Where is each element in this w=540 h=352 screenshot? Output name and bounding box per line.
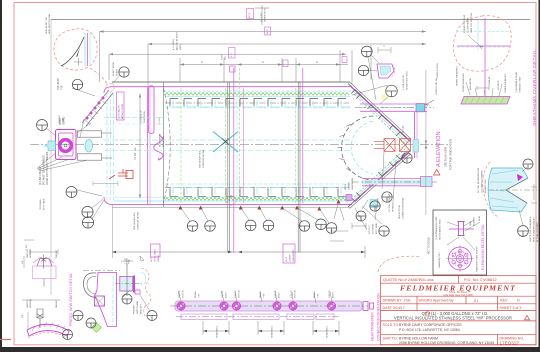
svg-text:ENGRG Approved By: ENGRG Approved By: [419, 299, 454, 303]
boxed dim label 1: [247, 9, 254, 19]
leg joint red dashed circle: [226, 196, 236, 206]
cloud leader dashes: [90, 68, 107, 84]
cloud2 leader arrow: [468, 35, 483, 49]
liquid level cyan dashed verticals: [106, 92, 108, 200]
switch dome lower magenta: [27, 324, 69, 336]
dim verticals: [112, 205, 114, 258]
svg-text:(REF.): (REF.): [180, 44, 182, 50]
scraper magenta wedge: [517, 174, 523, 181]
bezel flange outer circle: [449, 247, 472, 270]
balloon r0: [361, 46, 372, 57]
svg-text:LIQUID: LIQUID: [275, 290, 277, 298]
pedestal top dim: [121, 256, 144, 265]
right head arc clip ticks: [338, 124, 352, 171]
balloon b7: [326, 223, 337, 234]
hook centerline: [83, 269, 120, 271]
svg-text:OVERLAP DETAIL: OVERLAP DETAIL: [137, 211, 140, 230]
svg-text:SHEET 3 of 3: SHEET 3 of 3: [500, 306, 522, 310]
pipe crossing box: [370, 200, 378, 208]
cone top green dashed: [354, 94, 407, 146]
svg-text:NO WELD: NO WELD: [498, 80, 500, 90]
svg-text:HEX RETAINING RING: HEX RETAINING RING: [439, 219, 442, 240]
strip screws magenta: [86, 97, 105, 120]
scraper centerline: [488, 189, 537, 191]
svg-text:HOLDER: HOLDER: [30, 249, 32, 258]
dome dims: [28, 300, 60, 330]
svg-text:NOT TO SCALE: NOT TO SCALE: [428, 237, 431, 254]
svg-text:OUTLET: OUTLET: [183, 289, 185, 298]
bezel flange bolts: [452, 250, 468, 268]
balloon r1: [358, 65, 368, 75]
svg-text:TO DRAIN: TO DRAIN: [39, 199, 42, 210]
svg-text:16" B: 16" B: [286, 256, 288, 262]
pedestal salmon profile: [141, 268, 151, 316]
svg-text:CONNECTION DETAIL: CONNECTION DETAIL: [402, 196, 405, 219]
bezel stud line magenta: [449, 228, 474, 230]
svg-text:GRAY: GRAY: [469, 220, 472, 226]
end fitting: [363, 302, 374, 311]
balloon b4: [263, 220, 274, 231]
green bar hatch: [465, 97, 504, 103]
balloon g3: [119, 67, 129, 77]
tank top clips cyan echo: [173, 100, 350, 107]
green overlap bar: [461, 97, 510, 105]
svg-text:(2) LA STAINLESS STEEL: (2) LA STAINLESS STEEL: [435, 215, 438, 240]
cone clips top: [351, 90, 405, 138]
svg-text:16'-3": 16'-3": [249, 12, 251, 18]
green diamond: [92, 323, 102, 333]
pedestal stem vertical: [126, 264, 128, 296]
dims left of switch: [22, 240, 34, 300]
switch holder upper trapezoid: [37, 259, 52, 267]
svg-text:1/2" DIA. CONCAVE: 1/2" DIA. CONCAVE: [388, 192, 391, 212]
cloud sheathing curve: [61, 37, 84, 66]
cloud magenta vertical: [87, 33, 89, 66]
svg-text:SHEATHING: SHEATHING: [143, 111, 146, 123]
bottom vent pipe cyan fill: [362, 180, 432, 185]
channels dim 3: [313, 321, 339, 335]
balloon r6: [370, 201, 380, 211]
balloon b3: [245, 220, 256, 231]
balloon s2: [518, 226, 529, 237]
svg-text:INTO TANK: INTO TANK: [375, 223, 378, 234]
oring leader: [425, 100, 434, 107]
tank top clips row: [170, 99, 346, 107]
switch holder stem: [43, 279, 45, 287]
tank bottom cyan over insulation: [114, 196, 350, 198]
bottom right small cyan connection: [346, 195, 352, 201]
seam bundle 1 verticals: [224, 88, 226, 203]
svg-text:TO DRAIN: TO DRAIN: [372, 224, 375, 234]
row line above ship-to: [381, 333, 537, 335]
svg-text:BLADES ONLY: BLADES ONLY: [484, 178, 487, 193]
dim line y44: [148, 43, 426, 45]
balloon r8: [356, 211, 366, 221]
dome hatch: [32, 322, 65, 331]
hook blade outline magenta: [95, 273, 117, 327]
elevation warn triangle: [434, 169, 440, 175]
svg-text:P.O. BOX 176, LAFAYETTE, NY 13: P.O. BOX 176, LAFAYETTE, NY 13084: [399, 328, 460, 332]
svg-text:APPROX. LEVEL: APPROX. LEVEL: [121, 102, 124, 119]
boxed dim label 2: [265, 27, 271, 35]
switch holder dim arrows: [30, 250, 58, 264]
svg-text:VERTICAL INSULATED STAINLESS: VERTICAL INSULATED STAINLESS STEEL "HP" …: [394, 316, 512, 321]
cone bottom cyan: [353, 149, 410, 201]
corner target circle: [106, 83, 114, 91]
svg-text:16" B: 16" B: [151, 256, 153, 262]
cloud arrow: [76, 47, 80, 57]
pipe flanges: [177, 302, 336, 310]
cloud2 magenta horizontal: [457, 45, 510, 47]
sheathing red arrowheads bottom: [178, 200, 340, 211]
bezel stud caps: [457, 222, 465, 236]
svg-text:SHEET EDGE: SHEET EDGE: [113, 61, 115, 76]
bottom vent pipe end box: [421, 177, 433, 187]
svg-text:ROTATION: ROTATION: [162, 136, 165, 147]
balloon leader: [46, 128, 56, 136]
bottom vent pipe magenta walls: [362, 178, 432, 180]
svg-text:SOLD TO:: SOLD TO:: [383, 323, 400, 327]
assembly leader lines: [37, 153, 88, 171]
svg-text:TOP JOINT: TOP JOINT: [58, 77, 60, 90]
balloon g4: [82, 206, 93, 217]
qty circle mark: [425, 312, 430, 317]
svg-text:1/4": 1/4": [22, 260, 24, 264]
svg-text:SEE SHEATHING: SEE SHEATHING: [133, 212, 136, 230]
bezel flange hub ring: [456, 255, 464, 263]
svg-text:BRACKET: BRACKET: [140, 303, 143, 314]
agitator hub: [64, 144, 67, 147]
svg-text:LIQUID: LIQUID: [235, 290, 237, 298]
switch holder pin: [41, 255, 46, 269]
svg-text:FINGER OVERLAP: FINGER OVERLAP: [463, 14, 466, 33]
pedestal small magenta tab: [135, 290, 140, 294]
corner bracket leaders: [367, 54, 379, 71]
svg-text:INTO TANK: INTO TANK: [43, 198, 46, 210]
right end dim arrows: [425, 141, 427, 149]
svg-text:SWITCH: SWITCH: [27, 299, 29, 308]
svg-text:USING LOCTITE ON THREADS: USING LOCTITE ON THREADS: [46, 151, 49, 185]
hook U-bend inner: [87, 276, 97, 294]
tank bottom clip phantom line: [165, 186, 349, 188]
channels dim 2: [258, 321, 284, 335]
svg-text:AT FINAL ASSEMBLY: AT FINAL ASSEMBLY: [536, 221, 539, 242]
svg-text:TYP.: TYP.: [129, 259, 131, 264]
bezel flange bolt circle: [453, 251, 468, 266]
bottom connection leaders: [340, 206, 382, 230]
row line under drawn-by: [381, 303, 537, 305]
lower pipe seg 2: [233, 314, 279, 320]
top vent end box: [416, 104, 425, 112]
head baffle magenta bar: [149, 86, 154, 134]
svg-text:GUARD: GUARD: [63, 116, 66, 125]
svg-text:O-RING FOR 3A: O-RING FOR 3A: [436, 63, 439, 79]
left head seam verticals magenta: [147, 87, 149, 204]
interior X mark cyan: [213, 132, 238, 153]
balloon p3: [122, 294, 132, 304]
corner small dim: [93, 181, 118, 186]
svg-text:5'-1": 5'-1": [231, 52, 233, 57]
svg-text:TYP.: TYP.: [225, 55, 227, 60]
dim row arrows: [180, 63, 340, 65]
svg-text:DRAIN: DRAIN: [259, 291, 262, 298]
right end dim extension vertical: [425, 70, 427, 215]
svg-text:SKIN SECTION TAB: SKIN SECTION TAB: [48, 13, 51, 34]
yoke stem lines: [102, 132, 112, 134]
switch holder upper body: [33, 266, 57, 279]
svg-text:3/4" DIA. RETAINING ROD: 3/4" DIA. RETAINING ROD: [477, 167, 480, 193]
tank centerline: [30, 144, 448, 146]
svg-text:(2) LOWEST SCRAPER: (2) LOWEST SCRAPER: [481, 170, 484, 193]
bezel flange cross: [447, 245, 474, 272]
cloud cyan verticals: [84, 33, 86, 66]
svg-text:LOWER: LOWER: [290, 254, 292, 262]
svg-text:TARGET: TARGET: [55, 249, 58, 258]
apex expansion red box 2: [400, 139, 411, 152]
strip hatch ticks: [85, 100, 106, 124]
cone bottom green dashed: [354, 147, 407, 197]
svg-text:1 3/4": 1 3/4": [26, 244, 28, 250]
apex expansion red box 1: [384, 139, 395, 152]
hook blade cyan inner: [112, 276, 114, 325]
divider rev col: [497, 296, 499, 310]
svg-text:(7) ASSEMBLE SEAM: (7) ASSEMBLE SEAM: [515, 72, 518, 93]
svg-text:SEE BOTTOM: SEE BOTTOM: [399, 205, 401, 219]
svg-text:26 1/4": 26 1/4": [403, 126, 405, 133]
balloon r4: [402, 153, 412, 163]
upper pipe centerline: [170, 305, 368, 307]
svg-text:1" DIA. NYLON: 1" DIA. NYLON: [402, 75, 405, 90]
svg-text:EXPANSION BEZEL DETAIL: EXPANSION BEZEL DETAIL: [481, 224, 485, 270]
svg-text:TYP.: TYP.: [318, 293, 320, 298]
scraper dim right: [531, 184, 537, 203]
dome bolt: [37, 309, 43, 328]
svg-text:(2) LINK COLLAR: (2) LINK COLLAR: [39, 166, 42, 185]
apex red stub lines: [374, 141, 384, 143]
balloon b5: [299, 221, 310, 232]
top vent pipe magenta walls: [360, 103, 427, 105]
tank bottom insulation zigzag: [165, 198, 349, 201]
boxed dim label 3: [229, 48, 236, 59]
svg-text:LIQUID: LIQUID: [291, 290, 293, 298]
agitator inner magenta frame: [59, 133, 74, 156]
right head dished arc cyan: [351, 121, 373, 174]
row line above sold-to: [381, 320, 537, 322]
extension verticals to tank: [99, 32, 101, 83]
svg-text:PRIMARY: PRIMARY: [133, 304, 136, 314]
svg-text:3,000 GALLON: 3,000 GALLON: [118, 105, 121, 119]
cone clips bottom: [351, 154, 405, 202]
sight glass cyan oval: [85, 140, 93, 152]
svg-text:SHEATHING OVERLAP DETAIL: SHEATHING OVERLAP DETAIL: [532, 49, 538, 126]
cone top magenta: [351, 87, 411, 142]
svg-text:4'-0" (REF.): 4'-0" (REF.): [173, 39, 175, 50]
svg-text:INLET: INLET: [226, 291, 228, 298]
bottom vent pipe centerline: [352, 181, 438, 183]
svg-text:CHECK FOR CLEARANCE: CHECK FOR CLEARANCE: [529, 216, 532, 242]
tank bottom cyan liner: [114, 200, 351, 202]
hook clamp box: [95, 296, 105, 306]
row line under quote row: [381, 282, 537, 284]
tank bottom clips row: [170, 188, 346, 196]
svg-text:BYRNE HOLLOW FARM: BYRNE HOLLOW FARM: [399, 337, 438, 341]
svg-text:SHEATHING VENT: SHEATHING VENT: [406, 70, 409, 90]
scraper cyan body: [488, 168, 528, 212]
svg-text:TYP.: TYP.: [199, 293, 201, 298]
misc leader lines left end: [72, 75, 120, 219]
balloon p0: [63, 330, 73, 340]
svg-text:QUOTE No # 24887B01.doc: QUOTE No # 24887B01.doc: [383, 277, 434, 282]
bezel flange hub: [458, 256, 462, 260]
svg-text:BYRNE DAIRY CORPORATE OFFICES: BYRNE DAIRY CORPORATE OFFICES: [399, 323, 462, 327]
misc leader lines right end: [352, 57, 396, 220]
svg-text:10'-3": 10'-3": [267, 29, 269, 35]
svg-text:LOWER SHEATHING: LOWER SHEATHING: [504, 73, 507, 93]
interior cyan dashed horizontals: [104, 139, 350, 141]
pedestal cyan box: [120, 277, 133, 292]
balloon p4: [147, 311, 157, 321]
svg-text:PRESS. W/W SWITCH DETAIL: PRESS. W/W SWITCH DETAIL: [69, 273, 73, 326]
left overall vertical dim: [139, 94, 141, 199]
tank lower clip cyan line: [165, 107, 350, 109]
pitch lines: [330, 231, 348, 241]
svg-text:TARGET: TARGET: [55, 299, 58, 308]
balloon s1: [523, 159, 533, 169]
balloon b1: [187, 221, 198, 232]
sheathing seam strip line B: [86, 93, 113, 126]
bar label leaders: [466, 82, 502, 96]
detail cloud outline: [54, 29, 97, 70]
top vent pipe centerline: [355, 107, 434, 109]
svg-text:SHIM: SHIM: [479, 216, 481, 221]
svg-text:2056 BYRNE HOLLOW CROSSING, CO: 2056 BYRNE HOLLOW CROSSING, CORTLAND, NY…: [399, 341, 494, 345]
balloon b6: [316, 219, 327, 230]
divider drawn/engrg: [416, 296, 418, 310]
svg-text:1 1/2": 1 1/2": [126, 258, 128, 264]
tank top cyan under insulation: [165, 95, 350, 97]
svg-text:UPPER SHTG: UPPER SHTG: [265, 7, 267, 22]
svg-text:TYP.: TYP.: [62, 85, 64, 90]
dim row y64.5: [180, 64, 348, 66]
svg-text:STAINLESS STEEL RIVETS: STAINLESS STEEL RIVETS: [476, 246, 479, 272]
svg-text:CONNECTION ORIENTATION: CONNECTION ORIENTATION: [377, 293, 381, 341]
cone top outer black: [348, 84, 409, 140]
svg-text:SHIMS: SHIMS: [117, 69, 119, 76]
level label box magenta: [117, 92, 125, 120]
svg-text:17EO317: 17EO317: [500, 341, 520, 346]
balloon g2: [72, 79, 82, 89]
svg-text:01: 01: [474, 299, 478, 303]
svg-text:A ELEVATION: A ELEVATION: [436, 131, 442, 167]
cone bottom outer black: [348, 153, 409, 207]
flag box 3: [342, 57, 347, 63]
svg-text:CHANNELS: CHANNELS: [326, 326, 329, 338]
strip leader cross: [77, 119, 91, 137]
svg-text:WITH SCRAPER BLADES: WITH SCRAPER BLADES: [533, 217, 536, 242]
bezel stud leaders: [447, 220, 480, 250]
svg-text:SEE SHEATHING: SEE SHEATHING: [199, 150, 202, 168]
balloon g1: [37, 120, 48, 131]
svg-text:ADJUST AT ASSY: ADJUST AT ASSY: [176, 32, 179, 50]
svg-text:SWITCH AND: SWITCH AND: [136, 300, 139, 314]
corner bracket salmon dash: [390, 64, 395, 78]
lower pipe seg 4: [316, 314, 334, 320]
cloud dim cross: [74, 58, 83, 66]
left head seam vertical black: [163, 82, 165, 207]
balloon g6: [66, 187, 77, 198]
svg-text:DRAIN: DRAIN: [313, 291, 316, 298]
sheathing seam strip line A: [82, 90, 109, 123]
balloon r7: [379, 226, 389, 236]
svg-text:D: D: [517, 299, 520, 303]
flange cyan arrow: [44, 143, 49, 148]
svg-text:CHANNELS: CHANNELS: [216, 326, 219, 338]
balloon r2: [386, 85, 398, 97]
dim line arrows: [112, 251, 365, 254]
scraper salmon dashed arc: [483, 162, 498, 217]
cloud2 cyan vertical: [477, 20, 479, 50]
bar dim bracket: [477, 86, 489, 90]
tank bottom outer gray line: [112, 207, 350, 209]
svg-text:OUTLET: OUTLET: [295, 289, 297, 298]
warn triangle: [525, 315, 530, 319]
svg-text:OVERLAP: OVERLAP: [488, 76, 491, 86]
cloud2 cyan horizontals: [456, 31, 510, 33]
svg-text:TYP.: TYP.: [264, 293, 266, 298]
tank bottom upper cyan: [165, 183, 350, 185]
tank bottom sheathing magenta: [104, 197, 352, 205]
red fitting lower: [109, 169, 133, 179]
dim line y54.2: [109, 53, 346, 55]
svg-text:TANK TOP SECTION: TANK TOP SECTION: [470, 13, 473, 33]
svg-text:Little Falls, New York 13365: Little Falls, New York 13365: [443, 294, 473, 297]
yoke top bar: [77, 131, 101, 137]
apex cyan box: [413, 140, 419, 153]
svg-text:CHANNELS: CHANNELS: [271, 326, 274, 338]
scraper leaders: [519, 167, 527, 225]
drawing frame top line: [51, 19, 530, 21]
balloon b2: [205, 221, 216, 232]
svg-text:72 1/2" I.D.: 72 1/2" I.D.: [133, 147, 137, 160]
svg-text:LARGE: LARGE: [157, 254, 160, 262]
title block outline: [381, 276, 537, 345]
svg-text:UPPER SHEATHING: UPPER SHEATHING: [456, 66, 459, 86]
overall dim line y31.5: [100, 31, 426, 33]
svg-text:DRAIN: DRAIN: [194, 291, 197, 298]
tank top insulation zigzag: [165, 93, 349, 96]
clearance squiggle magenta: [154, 135, 163, 160]
svg-text:O-RING FOR 3A: O-RING FOR 3A: [435, 78, 438, 95]
pedestal heavy magenta vertical: [133, 276, 135, 293]
pedestal cyan echo: [141, 272, 146, 284]
balloon g5: [82, 217, 93, 228]
tank top clip phantom line: [165, 102, 349, 104]
svg-text:SKIN ALIGN THK: SKIN ALIGN THK: [45, 16, 48, 34]
tank top outer black line: [112, 81, 350, 83]
svg-text:DATE 3/14/17: DATE 3/14/17: [383, 306, 405, 310]
interior X center x: [223, 139, 229, 145]
svg-text:6 1/8": 6 1/8": [222, 54, 224, 60]
svg-text:SETBACK: SETBACK: [392, 202, 395, 212]
divider drawing-no col: [497, 334, 499, 345]
svg-text:LIQUID: LIQUID: [179, 290, 181, 298]
svg-text:INLET: INLET: [333, 291, 335, 298]
dashed arc below bezel: [378, 256, 421, 272]
drawing frame left line: [50, 20, 52, 296]
agitator mount magenta box: [56, 130, 77, 160]
apex magenta bezel vertical: [414, 112, 416, 158]
dim label box 2: [283, 244, 295, 263]
